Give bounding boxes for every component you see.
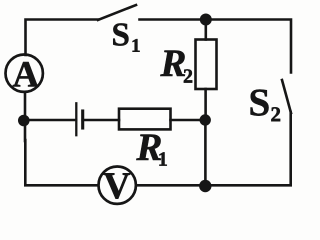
switch S1 blade <box>98 5 136 20</box>
wire top node down to R2 <box>205 20 208 40</box>
voltmeter V circle <box>99 167 136 204</box>
node left junction <box>18 115 30 127</box>
label S1 subscript 1 <box>133 39 140 52</box>
wire left vertical segment below ammeter <box>24 93 27 141</box>
battery short plate <box>81 111 84 128</box>
wire bottom-left <box>25 140 97 185</box>
wire right lower vertical <box>137 112 290 185</box>
label R1 letter R <box>136 134 161 160</box>
node bottom junction <box>199 180 211 192</box>
wire middle from left node to battery <box>24 119 76 122</box>
label S2 letter S <box>251 89 269 115</box>
label voltmeter letter V <box>104 173 131 198</box>
label R2 subscript 2 <box>184 69 192 82</box>
switch S2 blade <box>282 80 291 113</box>
label S1 letter S <box>113 23 128 45</box>
wire top-left horizontal <box>26 20 99 56</box>
label ammeter letter A <box>13 62 39 86</box>
wire middle node down to bottom node <box>204 120 207 186</box>
ammeter A circle <box>6 54 43 91</box>
wire R2 to middle node <box>204 89 207 120</box>
wire top-right horizontal <box>140 20 292 73</box>
wire battery to R1 <box>83 119 119 122</box>
label S2 subscript 2 <box>271 107 280 121</box>
resistor R1 box <box>119 109 171 130</box>
wire R1 to middle node <box>171 119 206 122</box>
battery long plate <box>75 103 77 135</box>
resistor R2 box <box>196 40 217 90</box>
label R1 subscript 1 <box>159 152 166 165</box>
node top junction <box>200 14 212 26</box>
label R2 letter R <box>160 50 185 76</box>
node middle junction <box>200 114 211 125</box>
